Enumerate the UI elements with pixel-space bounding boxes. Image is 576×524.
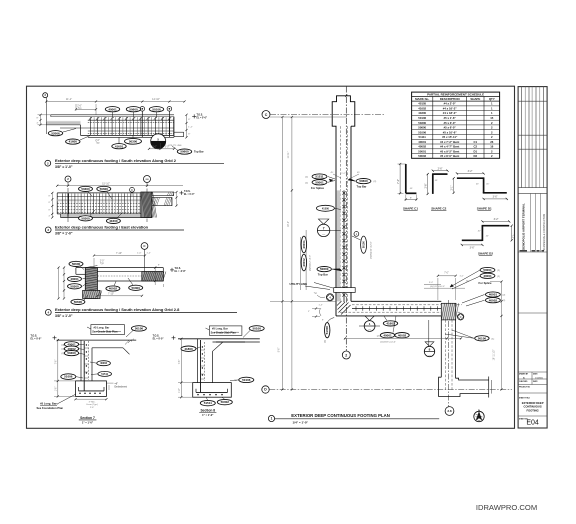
plan grid line D xyxy=(262,386,512,393)
svg-text:SHAPE C1: SHAPE C1 xyxy=(403,206,418,210)
plan callouts 40001 40002 right xyxy=(462,292,505,306)
svg-text:1'-2": 1'-2" xyxy=(147,253,152,255)
svg-text:50300: 50300 xyxy=(81,216,90,220)
svg-text:See Foundation Plan: See Foundation Plan xyxy=(37,406,64,410)
svg-text:50300: 50300 xyxy=(418,121,426,125)
svg-text:50300: 50300 xyxy=(132,286,141,290)
bar shape D1 xyxy=(451,170,508,210)
svg-text:#4 x 4'-7" Bent: #4 x 4'-7" Bent xyxy=(440,145,459,149)
section 7 right callouts xyxy=(90,361,111,377)
svg-text:50001: 50001 xyxy=(315,180,324,184)
detail 2 top dimension lines xyxy=(45,98,185,115)
svg-text:=6": =6" xyxy=(115,383,119,385)
plan column stub outline at top xyxy=(332,95,355,127)
svg-text:40002: 40002 xyxy=(302,258,306,267)
svg-text:1'-2": 1'-2" xyxy=(341,173,345,175)
detail 4 footing block xyxy=(83,290,102,298)
plan detail marker diamond 4 xyxy=(314,293,334,301)
section 8 title xyxy=(199,408,216,417)
detail 2 section cut marker half-dark circle xyxy=(151,134,166,149)
svg-text:2'-1": 2'-1" xyxy=(512,233,515,238)
section 8 note grade slab bar xyxy=(206,326,242,335)
svg-text:EL = -0'-8": EL = -0'-8" xyxy=(175,271,186,273)
svg-text:8": 8" xyxy=(49,210,51,212)
svg-text:1/1/2000: 1/1/2000 xyxy=(535,377,544,379)
detail 4 hatched stem column xyxy=(85,266,97,299)
svg-text:40001: 40001 xyxy=(383,333,392,337)
svg-text:3'-4": 3'-4" xyxy=(429,282,433,284)
svg-text:3'-6": 3'-6" xyxy=(493,196,498,199)
svg-text:40001: 40001 xyxy=(302,240,306,249)
svg-text:41800: 41800 xyxy=(184,347,193,351)
detail 3 top slab bar right xyxy=(152,192,175,196)
svg-text:15: 15 xyxy=(490,116,494,120)
svg-text:(6)@12"=10'-0": (6)@12"=10'-0" xyxy=(430,286,445,288)
svg-text:Top Bar: Top Bar xyxy=(194,150,204,154)
svg-text:1'-3": 1'-3" xyxy=(319,304,323,306)
plan 45 degree splice dims xyxy=(331,172,361,178)
svg-text:Exterior deep continuous footi: Exterior deep continuous footing / East … xyxy=(55,225,149,230)
detail 3 top dimension line xyxy=(56,182,183,186)
svg-text:51511: 51511 xyxy=(101,373,108,376)
detail 2 title xyxy=(45,158,224,169)
svg-text:51006: 51006 xyxy=(325,326,329,335)
detail 4 beam to right xyxy=(97,268,163,281)
svg-text:40001: 40001 xyxy=(70,277,79,281)
svg-text:2'-6": 2'-6" xyxy=(438,168,443,171)
svg-text:EL = 0'-0": EL = 0'-0" xyxy=(184,194,194,196)
svg-text:4": 4" xyxy=(37,123,39,125)
svg-text:6": 6" xyxy=(410,197,412,199)
plan small diamond marker on wall xyxy=(457,314,463,320)
svg-text:7: 7 xyxy=(323,226,325,230)
detail 2 grid verticals C and D xyxy=(140,107,172,138)
plan callout 41602 xyxy=(383,316,397,326)
section 8 slab and wall outline xyxy=(178,339,260,383)
section 7 title xyxy=(79,416,97,425)
svg-text:#4 x 2'-0": #4 x 2'-0" xyxy=(444,102,457,106)
svg-text:45°: 45° xyxy=(435,180,438,182)
svg-text:EXTERIOR DEEP: EXTERIOR DEEP xyxy=(522,401,544,405)
svg-text:8": 8" xyxy=(49,196,51,198)
detail 4 callout 40001 left xyxy=(68,276,87,281)
section 8 callout 50106 top xyxy=(243,326,264,338)
svg-text:16: 16 xyxy=(490,145,494,149)
title block project name vertical text xyxy=(520,203,546,251)
svg-text:50001: 50001 xyxy=(483,268,492,272)
svg-text:Cover (Typ.): Cover (Typ.) xyxy=(86,403,98,406)
svg-text:2.8: 2.8 xyxy=(447,409,452,413)
svg-text:1'-4": 1'-4" xyxy=(188,127,193,129)
svg-text:(2): (2) xyxy=(305,182,308,184)
plan utility crossing box xyxy=(334,288,356,293)
detail 2 callout 50300 xyxy=(125,136,142,145)
section 8 left dimension line xyxy=(178,338,193,399)
plan gray bracket dim above strip xyxy=(424,286,465,288)
title block sheet title text xyxy=(518,397,547,416)
svg-text:41602: 41602 xyxy=(418,107,426,111)
svg-text:2: 2 xyxy=(345,353,347,357)
svg-text:CONTINUOUS: CONTINUOUS xyxy=(524,405,542,409)
svg-text:40002: 40002 xyxy=(418,145,426,149)
plan callout 50600 top bar second xyxy=(317,267,342,277)
svg-text:5": 5" xyxy=(308,311,310,313)
svg-text:51006: 51006 xyxy=(418,130,426,134)
svg-text:7'-2": 7'-2" xyxy=(397,179,400,184)
svg-text:51511: 51511 xyxy=(204,401,213,405)
svg-text:2'-6": 2'-6" xyxy=(425,183,428,188)
svg-text:—: — xyxy=(322,232,325,236)
svg-text:(11)@15"=12'-4": (11)@15"=12'-4" xyxy=(380,342,396,344)
svg-text:See Grade Slab Plan: See Grade Slab Plan xyxy=(92,330,118,334)
svg-text:11'-1": 11'-1" xyxy=(66,98,72,101)
svg-text:(1): (1) xyxy=(492,338,495,340)
detail 2 stirrups xyxy=(46,117,173,135)
plan grid line C xyxy=(262,111,385,119)
detail 4 dark bar segment at right xyxy=(142,272,166,281)
svg-text:50002: 50002 xyxy=(221,400,230,404)
detail 2 callout 40001 top xyxy=(105,107,119,117)
plan splice callouts 51511 50001 xyxy=(305,174,335,190)
detail 3 elevation marker xyxy=(180,191,195,196)
detail 3 small circle callout xyxy=(130,187,135,196)
svg-text:16'-11 1/2": 16'-11 1/2" xyxy=(494,349,496,360)
svg-text:—: — xyxy=(368,327,371,331)
svg-text:7'-0": 7'-0" xyxy=(444,273,449,275)
plan callout 50600 top bar xyxy=(348,179,376,189)
svg-text:SHAPE: SHAPE xyxy=(470,97,480,101)
svg-text:Top Bar: Top Bar xyxy=(357,185,367,189)
svg-text:40002: 40002 xyxy=(109,287,118,291)
plan right wall below strip xyxy=(441,320,455,390)
section 8 wall rebar xyxy=(201,340,205,392)
detail 4 callout 50300 left xyxy=(68,283,88,289)
svg-text:1'-0": 1'-0" xyxy=(137,253,142,255)
svg-text:3'-0": 3'-0" xyxy=(152,147,157,149)
svg-text:#5 x 8'-0" Bent: #5 x 8'-0" Bent xyxy=(440,154,459,158)
detail 2 callout 50600 top xyxy=(126,107,140,117)
svg-text:3'-2": 3'-2" xyxy=(494,218,499,221)
plan vertical callouts 40001 40002 pair xyxy=(301,236,311,271)
plan splice callouts right top xyxy=(450,267,500,289)
detail 3 callout 50300 top xyxy=(79,186,93,196)
svg-text:45°: 45° xyxy=(357,172,360,174)
svg-text:EXTERIOR DEEP CONTINUOUS FOOTI: EXTERIOR DEEP CONTINUOUS FOOTING PLAN xyxy=(291,413,390,418)
plan grid line 2.8 vertical xyxy=(445,300,454,415)
svg-text:(2): (2) xyxy=(325,340,327,343)
detail 2 dim texts below xyxy=(95,140,182,150)
svg-text:50106: 50106 xyxy=(478,336,487,340)
svg-text:CHECKED: CHECKED xyxy=(519,381,528,383)
detail 2 right depth dimension xyxy=(185,114,192,139)
svg-text:50106: 50106 xyxy=(135,327,144,331)
svg-text:1'-6": 1'-6" xyxy=(179,388,181,393)
svg-text:40001: 40001 xyxy=(489,293,498,297)
detail 3 hatched wall at right xyxy=(141,192,157,218)
svg-text:Section 7: Section 7 xyxy=(80,416,95,420)
detail 4 callout 50600 bottom xyxy=(71,295,88,305)
svg-text:50001: 50001 xyxy=(418,149,426,153)
section 8 bottom callouts xyxy=(200,397,232,406)
svg-text:SHAPE C2: SHAPE C2 xyxy=(431,206,446,210)
svg-text:SHAPE D2: SHAPE D2 xyxy=(478,252,493,256)
detail 4 callout 40002 beam xyxy=(106,282,120,292)
svg-text:T.O.S.: T.O.S. xyxy=(175,268,182,270)
svg-text:2'-1": 2'-1" xyxy=(451,185,454,190)
svg-text:8": 8" xyxy=(188,134,190,136)
svg-text:50600: 50600 xyxy=(320,267,329,271)
plan north arrow xyxy=(474,408,484,421)
svg-text:50106: 50106 xyxy=(418,116,426,120)
svg-text:DESCRIPTION: DESCRIPTION xyxy=(440,97,460,101)
detail 3 callout 50600 top xyxy=(97,186,112,199)
svg-text:8": 8" xyxy=(49,202,51,204)
svg-text:3" Min.: 3" Min. xyxy=(89,401,96,403)
detail 2 left small dimensions xyxy=(37,114,52,126)
svg-text:(2): (2) xyxy=(503,295,506,297)
title block drawn-by and checked rows xyxy=(518,372,547,385)
svg-text:1'-5": 1'-5" xyxy=(460,276,464,278)
svg-text:1: 1 xyxy=(271,417,273,421)
svg-text:(2): (2) xyxy=(497,270,500,272)
section 8 callout 41800 xyxy=(181,346,200,351)
svg-text:For Splice: For Splice xyxy=(311,186,324,190)
svg-text:DEMOPOLIS AIRPORT TERMINAL: DEMOPOLIS AIRPORT TERMINAL xyxy=(522,203,526,250)
svg-text:For Splice: For Splice xyxy=(479,281,492,285)
svg-text:50300: 50300 xyxy=(67,351,76,355)
plan section cut marker 10 left bottom xyxy=(424,320,434,357)
svg-text:#4 x 16'-2": #4 x 16'-2" xyxy=(443,107,457,111)
svg-text:50300: 50300 xyxy=(81,187,90,191)
plan footing strip vertical walls xyxy=(336,126,351,316)
svg-text:50106: 50106 xyxy=(152,107,161,111)
svg-text:T.O.S.: T.O.S. xyxy=(184,191,191,193)
detail 4 title xyxy=(45,307,237,318)
svg-text:40002: 40002 xyxy=(398,333,407,337)
detail 2 callout 50600 top bar right xyxy=(172,146,204,154)
plan bottom dimension line under strip xyxy=(344,337,462,339)
svg-text:EL = 0'-0": EL = 0'-0" xyxy=(153,337,164,340)
detail 3 lower bar right xyxy=(152,198,172,206)
svg-text:Exterior deep continuous footi: Exterior deep continuous footing / South… xyxy=(55,307,180,312)
title block strip and revision grid xyxy=(518,87,547,428)
detail 4 left dimension ticks xyxy=(57,267,65,300)
svg-text:#5 x 1'-6": #5 x 1'-6" xyxy=(444,116,457,120)
svg-text:7'-6": 7'-6" xyxy=(179,360,181,365)
svg-text:14'-10": 14'-10" xyxy=(152,98,160,101)
svg-text:8": 8" xyxy=(322,320,324,322)
svg-text:#5 x 15'-11": #5 x 15'-11" xyxy=(442,135,458,139)
detail 3 internal rebar lines xyxy=(57,196,152,212)
svg-text:41601: 41601 xyxy=(115,144,124,148)
detail 2 callout 52006 xyxy=(48,129,76,136)
svg-text:50600: 50600 xyxy=(180,150,189,154)
svg-text:45°: 45° xyxy=(478,231,481,233)
partial reinforcement schedule table xyxy=(412,92,500,158)
svg-text:1" = 1'-0": 1" = 1'-0" xyxy=(82,420,94,424)
svg-text:(2): (2) xyxy=(503,300,506,302)
svg-text:8": 8" xyxy=(37,118,39,120)
section 7 left callouts xyxy=(62,342,86,356)
detail 3 callout 50300 bottom xyxy=(79,210,96,221)
svg-text:7'-6": 7'-6" xyxy=(55,360,57,365)
svg-text:41500: 41500 xyxy=(322,207,330,210)
svg-text:1" = 1'-0": 1" = 1'-0" xyxy=(202,413,214,417)
detail 2 grid bubble left xyxy=(43,93,48,134)
section 8 callout 50106 right xyxy=(230,377,254,382)
svg-text:9'-6": 9'-6" xyxy=(278,348,280,353)
svg-text:50600: 50600 xyxy=(418,126,426,130)
svg-text:(2): (2) xyxy=(497,276,500,278)
svg-text:45°: 45° xyxy=(410,188,413,190)
svg-text:C: C xyxy=(265,113,268,117)
svg-text:3'-6": 3'-6" xyxy=(470,247,475,250)
section 8 elevation marker xyxy=(153,334,176,340)
svg-text:#5 x 10'-6": #5 x 10'-6" xyxy=(443,130,457,134)
detail 4 grid bubble C top xyxy=(137,243,151,272)
svg-text:41800: 41800 xyxy=(418,111,426,115)
plan top right dimensions xyxy=(424,273,469,301)
svg-text:50002: 50002 xyxy=(418,154,426,158)
svg-text:3'-2": 3'-2" xyxy=(468,170,473,173)
svg-text:7'-10": 7'-10" xyxy=(116,252,122,255)
plan callout 41500 xyxy=(316,205,341,211)
section 8 footing outline xyxy=(193,383,232,398)
section 7 left dimension line xyxy=(54,339,76,398)
svg-text:45°: 45° xyxy=(476,184,479,186)
svg-text:8": 8" xyxy=(158,264,160,266)
svg-text:MARK No.: MARK No. xyxy=(415,97,429,101)
svg-text:C1: C1 xyxy=(474,140,478,144)
detail 2 callout 41601 xyxy=(112,138,126,149)
svg-text:SHAPE D1: SHAPE D1 xyxy=(477,206,492,210)
svg-text:51006: 51006 xyxy=(64,375,73,379)
plan section cut marker 7 xyxy=(317,219,341,237)
detail 2 rebar lines inside beam xyxy=(60,120,174,133)
svg-text:3/8" = 1'-0": 3/8" = 1'-0" xyxy=(55,232,73,236)
svg-text:1/4" = 1'-0": 1/4" = 1'-0" xyxy=(293,420,309,424)
detail 2 callout 50106 top xyxy=(149,107,163,117)
svg-text:T.O.S.: T.O.S. xyxy=(197,115,204,117)
svg-text:IDRAWPRO.COM: IDRAWPRO.COM xyxy=(476,503,537,512)
detail 2 elevation marker TOS xyxy=(192,114,207,119)
detail 3 existing grade gray band xyxy=(57,199,152,201)
svg-text:FOOTING: FOOTING xyxy=(526,409,538,413)
svg-text:50106: 50106 xyxy=(242,378,251,382)
detail 3 stirrups xyxy=(63,193,150,218)
detail 2 callout 41600 xyxy=(66,136,90,145)
svg-text:50600: 50600 xyxy=(72,262,81,266)
plan title xyxy=(268,413,439,424)
svg-text:Exterior deep continuous footi: Exterior deep continuous footing / South… xyxy=(55,158,177,163)
detail 3 grid bubbles 2 and 2.8 xyxy=(65,176,151,224)
svg-text:#5 Long. Bar: #5 Long. Bar xyxy=(212,327,228,331)
plan utility line note xyxy=(290,282,334,290)
svg-text:PARTIAL REINFORCEMENT SCHEDULE: PARTIAL REINFORCEMENT SCHEDULE xyxy=(427,93,484,97)
svg-text:#5 x 3'-0": #5 x 3'-0" xyxy=(444,121,457,125)
section 7 note grade slab bar xyxy=(87,325,124,335)
section 7 callout 50106 top xyxy=(126,326,146,337)
svg-text:45°: 45° xyxy=(331,172,334,174)
svg-text:1'-6": 1'-6" xyxy=(55,387,57,392)
svg-text:(7)#5@12"=12'-6": (7)#5@12"=12'-6" xyxy=(371,241,373,259)
svg-text:—: — xyxy=(428,353,431,357)
plan callouts 40001 40002 bottom xyxy=(377,316,409,344)
section 7 callout 51006 xyxy=(61,374,83,380)
detail 4 callout 50300 beam xyxy=(128,278,143,290)
plan horizontal rebar line with ticks xyxy=(337,301,455,315)
plan callout 50106 right lower xyxy=(445,330,494,341)
svg-text:45°: 45° xyxy=(486,236,489,238)
svg-text:40002: 40002 xyxy=(489,298,498,302)
svg-text:C2: C2 xyxy=(474,145,478,149)
svg-text:15'-10": 15'-10" xyxy=(102,182,110,185)
title block project number row xyxy=(518,386,547,393)
title block sheet number E04 xyxy=(519,419,539,427)
svg-text:50300: 50300 xyxy=(70,284,79,288)
section 7 slab and wall outline xyxy=(57,339,137,381)
section 7 bottom clear dims xyxy=(74,398,107,409)
svg-text:UTILITY LINE: UTILITY LINE xyxy=(290,282,308,286)
bar shape C1 xyxy=(397,163,419,211)
sheet border frame xyxy=(27,86,515,428)
detail 4 bottom dim xyxy=(96,293,143,297)
detail 3 title xyxy=(45,225,184,236)
svg-text:QTY: QTY xyxy=(489,97,495,101)
svg-text:26: 26 xyxy=(490,140,494,144)
section 7 wall rebar xyxy=(84,341,88,391)
detail 3 callout 41600 bottom xyxy=(106,213,122,223)
svg-text:#5 Long. Bar: #5 Long. Bar xyxy=(94,326,110,330)
svg-text:PROJECT NO: PROJECT NO xyxy=(519,386,531,388)
svg-text:#5 x 9'-2" Bent: #5 x 9'-2" Bent xyxy=(440,149,459,153)
svg-text:SHEET TITLE: SHEET TITLE xyxy=(519,397,531,399)
plan left dimension chains xyxy=(270,116,347,391)
svg-text:Section 8: Section 8 xyxy=(200,408,215,412)
plan vertical callout 50106 right xyxy=(352,232,373,259)
svg-text:50300: 50300 xyxy=(129,139,138,143)
svg-text:#5 x 6'-0": #5 x 6'-0" xyxy=(444,126,457,130)
plan grid line 2 vertical xyxy=(342,87,350,360)
svg-text:2'-6": 2'-6" xyxy=(90,407,95,409)
plan right vertical dimension xyxy=(490,281,503,391)
svg-text:#4 x 7'-2" Bent: #4 x 7'-2" Bent xyxy=(440,140,459,144)
svg-text:(2): (2) xyxy=(377,335,380,337)
svg-text:50106: 50106 xyxy=(253,327,262,331)
svg-text:50600: 50600 xyxy=(74,300,83,304)
svg-text:4": 4" xyxy=(49,216,51,218)
svg-text:(2): (2) xyxy=(305,177,308,179)
svg-text:EL = 0'-0": EL = 0'-0" xyxy=(31,337,42,340)
svg-text:52006: 52006 xyxy=(51,131,60,135)
svg-text:DRAWN BY: DRAWN BY xyxy=(519,373,529,376)
bar shape D2 xyxy=(461,218,515,256)
svg-text:D1: D1 xyxy=(474,149,478,153)
svg-text:3/8" = 1'-0": 3/8" = 1'-0" xyxy=(55,314,73,318)
svg-text:8": 8" xyxy=(188,119,190,121)
plan small dims left of corner xyxy=(308,304,324,321)
detail 3 beam outline xyxy=(57,193,152,218)
svg-text:Embedment: Embedment xyxy=(115,386,128,389)
section 7 footing outline xyxy=(76,381,107,397)
svg-text:40105: 40105 xyxy=(418,102,426,106)
detail 2 footing elevation outline xyxy=(46,115,183,138)
svg-text:EL = 0'-0": EL = 0'-0" xyxy=(197,117,207,119)
svg-text:D: D xyxy=(131,189,133,192)
svg-text:50600: 50600 xyxy=(359,179,368,183)
svg-text:40001: 40001 xyxy=(108,107,117,111)
plan footing T-intersection at grid D xyxy=(439,377,492,398)
